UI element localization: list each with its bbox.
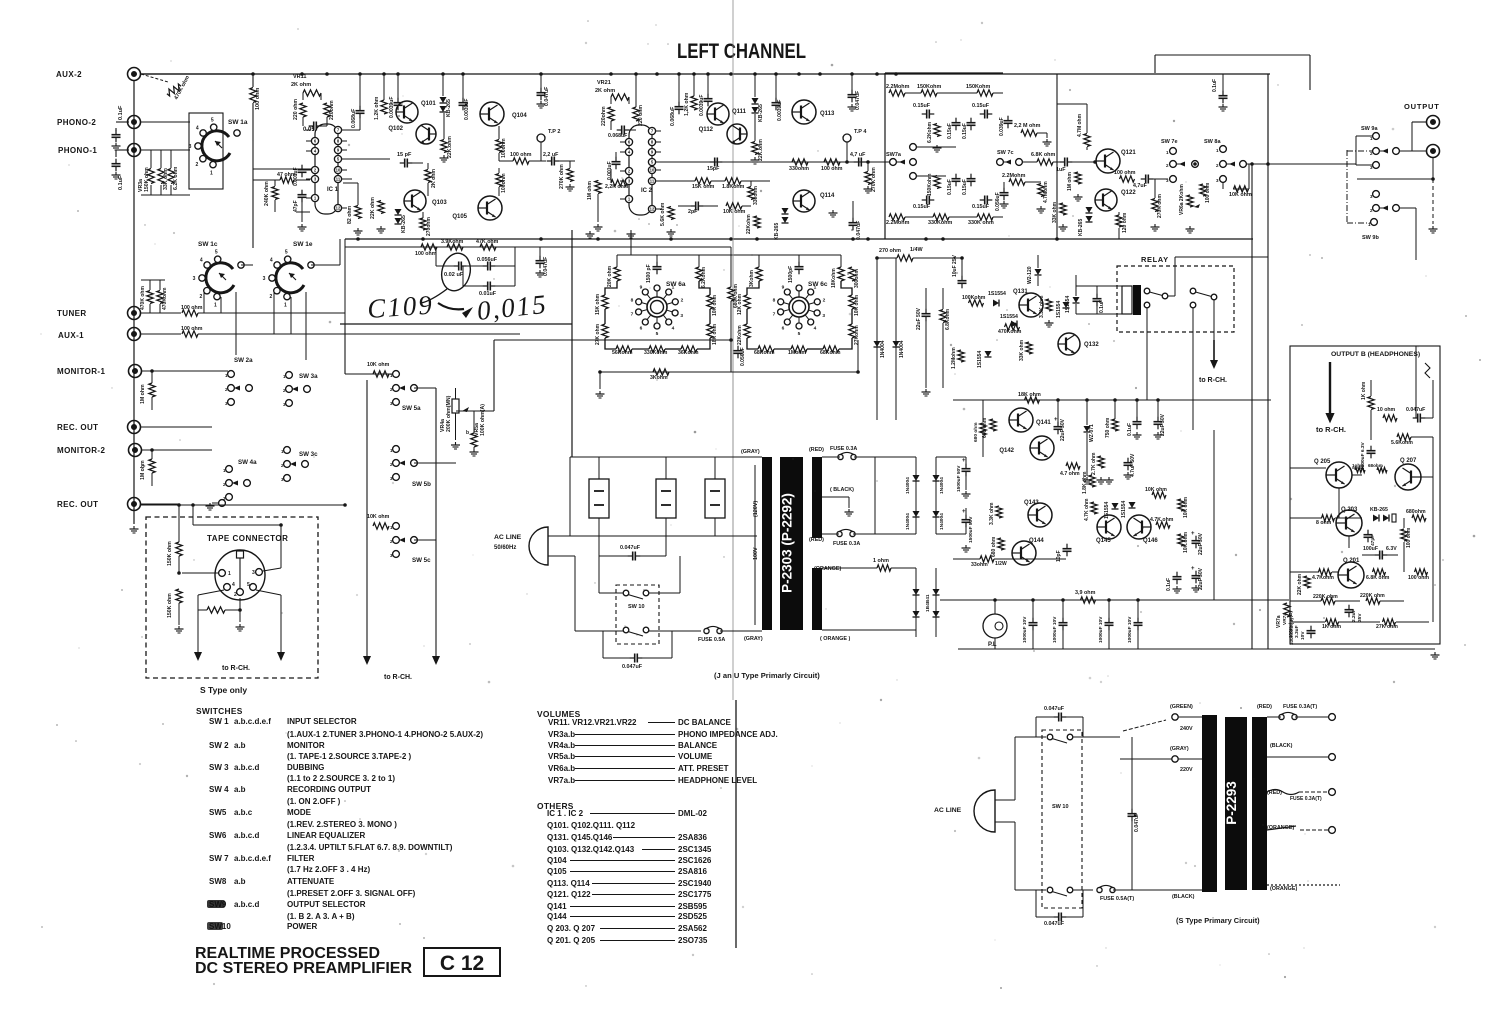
svg-text:2SD525: 2SD525 bbox=[678, 912, 707, 921]
svg-text:6: 6 bbox=[782, 325, 785, 331]
svg-text:2.2Mohm: 2.2Mohm bbox=[886, 220, 910, 226]
svg-text:MODE: MODE bbox=[287, 808, 312, 817]
svg-text:220K ohm: 220K ohm bbox=[1313, 594, 1338, 600]
ground hp right bbox=[1434, 652, 1436, 655]
svg-text:a.b.c.d: a.b.c.d bbox=[234, 763, 259, 772]
scan speckles bbox=[960, 39, 961, 40]
svg-text:Q132: Q132 bbox=[1084, 342, 1099, 348]
svg-text:100 ohm: 100 ohm bbox=[1205, 182, 1211, 203]
resistor 270K ohm sw7e bbox=[1152, 199, 1158, 212]
capacitor 1000uF 6.3V hp bbox=[1370, 446, 1372, 451]
long wire x631 down bbox=[630, 230, 632, 255]
bus wire lower mid bbox=[345, 238, 1253, 240]
svg-text:KB-265: KB-265 bbox=[1370, 507, 1388, 513]
capacitor 0.15uF vert2 bbox=[970, 118, 972, 123]
wires top right bbox=[1056, 74, 1058, 239]
svg-text:0.0039uF: 0.0039uF bbox=[699, 95, 705, 116]
svg-text:1B4B41: 1B4B41 bbox=[925, 594, 931, 612]
wire sw9b to headphone box bbox=[1399, 207, 1416, 209]
diode 1S1554 relay bbox=[1073, 297, 1080, 303]
capacitor 0.0039uF b bbox=[462, 98, 464, 103]
svg-text:1500uF 50V: 1500uF 50V bbox=[956, 465, 962, 492]
svg-text:27K ohm: 27K ohm bbox=[595, 323, 601, 345]
wires ic1 pins bbox=[306, 129, 311, 131]
svg-text:(120V): (120V) bbox=[753, 501, 759, 517]
svg-text:100V: 100V bbox=[753, 547, 759, 560]
svg-text:a.b: a.b bbox=[234, 785, 246, 794]
svg-text:Q111: Q111 bbox=[732, 109, 747, 115]
resistor 4.7Mohm vert bbox=[1038, 184, 1044, 197]
svg-text:10K ohm: 10K ohm bbox=[367, 362, 390, 368]
capacitor 1000uF 10V b bbox=[1062, 618, 1064, 623]
diode bridge 1N4004 2 bbox=[935, 457, 937, 520]
svg-text:4.7uF 50V: 4.7uF 50V bbox=[1130, 453, 1136, 477]
svg-text:2: 2 bbox=[196, 162, 199, 168]
svg-text:TUNER: TUNER bbox=[57, 309, 87, 318]
svg-text:1000uF 10V: 1000uF 10V bbox=[1127, 616, 1133, 643]
svg-text:VR11. VR12.VR21.VR22: VR11. VR12.VR21.VR22 bbox=[548, 718, 637, 727]
svg-text:3.9Kohm: 3.9Kohm bbox=[441, 239, 464, 245]
svg-text:0.1uF: 0.1uF bbox=[1212, 79, 1218, 92]
svg-text:2pF: 2pF bbox=[688, 209, 698, 215]
svg-text:KB-265: KB-265 bbox=[774, 223, 780, 240]
svg-text:Q121. Q122: Q121. Q122 bbox=[547, 890, 591, 899]
svg-text:1K ohm: 1K ohm bbox=[1361, 381, 1367, 400]
svg-text:12K ohm: 12K ohm bbox=[737, 293, 743, 315]
svg-text:22uF 50V: 22uF 50V bbox=[1198, 532, 1204, 555]
svg-text:750 ohm: 750 ohm bbox=[1105, 417, 1111, 438]
svg-text:0.15uF: 0.15uF bbox=[913, 103, 931, 109]
svg-text:PHONO-1: PHONO-1 bbox=[58, 146, 97, 155]
svg-text:FUSE 0.3A(T): FUSE 0.3A(T) bbox=[1290, 796, 1322, 802]
svg-text:0.15uF: 0.15uF bbox=[972, 103, 990, 109]
relay coil bbox=[1122, 286, 1132, 314]
svg-text:0.047uF: 0.047uF bbox=[1044, 921, 1065, 927]
svg-text:Q 207: Q 207 bbox=[1400, 458, 1417, 464]
ground VR4a bbox=[455, 426, 457, 440]
resistor 100ohm vertical q105 bbox=[496, 174, 502, 187]
svg-text:6.8K ohm: 6.8K ohm bbox=[1366, 575, 1390, 581]
svg-text:SW 6a: SW 6a bbox=[666, 281, 686, 288]
svg-text:22uF 50V: 22uF 50V bbox=[1060, 418, 1066, 441]
transformer P-2293 primary bar bbox=[1202, 715, 1217, 892]
capacitor 1500uF 50V b bbox=[965, 515, 967, 520]
svg-text:0.047uF: 0.047uF bbox=[856, 221, 862, 240]
capacitor 0.056uF bbox=[1003, 188, 1005, 193]
svg-text:( BLACK): ( BLACK) bbox=[830, 487, 854, 493]
diode bridge 1N4004 1 bbox=[915, 457, 917, 520]
svg-text:2: 2 bbox=[200, 294, 203, 300]
svg-text:22uF 50V: 22uF 50V bbox=[1160, 413, 1166, 436]
svg-text:3Kohm: 3Kohm bbox=[749, 270, 755, 288]
diode 1S1554 b bbox=[1011, 321, 1017, 328]
SW10 contact upper bbox=[623, 590, 629, 596]
svg-text:4,7uF: 4,7uF bbox=[1133, 183, 1148, 189]
resistor 270K ohm tp2 bbox=[567, 169, 573, 182]
capacitor 0.047uF mid bbox=[539, 256, 541, 261]
relay wires bbox=[1174, 257, 1176, 296]
svg-text:120 ohm: 120 ohm bbox=[1122, 212, 1128, 233]
svg-text:1000uF 10V: 1000uF 10V bbox=[1052, 616, 1058, 643]
svg-text:10pF: 10pF bbox=[1056, 550, 1062, 562]
resistor 300ohm sw6c right bbox=[849, 267, 855, 281]
svg-text:HEADPHONE LEVEL: HEADPHONE LEVEL bbox=[678, 776, 757, 785]
svg-text:220ohm: 220ohm bbox=[601, 106, 607, 126]
transistor Q102 bbox=[416, 124, 436, 144]
resistor 100 ohm tuner bbox=[141, 312, 181, 314]
svg-text:Q 201. Q 205: Q 201. Q 205 bbox=[547, 936, 596, 945]
SW10b contact lower bbox=[1047, 887, 1053, 893]
resistor 680K ohm divider bbox=[728, 287, 734, 301]
svg-text:INPUT SELECTOR: INPUT SELECTOR bbox=[287, 717, 357, 726]
ellipse annotation around 0.02uF bbox=[438, 250, 474, 294]
svg-text:150K ohm: 150K ohm bbox=[167, 541, 173, 566]
svg-text:2.2Mohm: 2.2Mohm bbox=[886, 84, 910, 90]
svg-text:SW6: SW6 bbox=[209, 831, 227, 840]
arrow to R-CH tape right bbox=[277, 652, 285, 661]
line filter can 3 bbox=[705, 479, 725, 518]
svg-text:6.8Kohm: 6.8Kohm bbox=[945, 308, 951, 330]
svg-text:10K ohm: 10K ohm bbox=[712, 294, 718, 316]
svg-text:Q145: Q145 bbox=[1096, 538, 1111, 544]
svg-text:VR6a 2Kohm: VR6a 2Kohm bbox=[1179, 184, 1185, 215]
svg-text:1M ohm: 1M ohm bbox=[140, 384, 146, 404]
svg-text:(1. B 2. A: (1. B 2. A 3. A + B) bbox=[287, 912, 355, 921]
svg-text:FUSE 0.3A(T): FUSE 0.3A(T) bbox=[1283, 704, 1317, 710]
relay contact a bbox=[1144, 288, 1150, 294]
wire monitor-1 to sw2a bbox=[141, 370, 228, 372]
svg-text:SW 7e: SW 7e bbox=[1161, 139, 1178, 145]
svg-text:AC LINE: AC LINE bbox=[934, 807, 962, 814]
transformer P-2303 secondary bar upper bbox=[812, 457, 822, 538]
capacitor 1000uF 10V a bbox=[1032, 618, 1034, 623]
wire pin3 top bbox=[192, 505, 194, 525]
svg-text:T.P 4: T.P 4 bbox=[854, 129, 867, 135]
wire jackB bbox=[1399, 150, 1426, 152]
wires sw6a wings bbox=[605, 281, 617, 295]
svg-text:10K ohm: 10K ohm bbox=[1183, 496, 1189, 518]
op-amp IC 1 bbox=[315, 124, 338, 214]
svg-text:SW 1a: SW 1a bbox=[228, 119, 248, 126]
svg-text:+: + bbox=[1191, 566, 1195, 572]
transistor Q143 bbox=[1028, 503, 1052, 527]
transistor Q146 bbox=[1127, 515, 1151, 539]
svg-text:10K ohm: 10K ohm bbox=[723, 209, 746, 215]
svg-text:3: 3 bbox=[822, 313, 825, 319]
tape connector dashed box bbox=[146, 517, 318, 678]
svg-text:5: 5 bbox=[798, 331, 801, 337]
ground output bbox=[1432, 179, 1434, 224]
svg-text:220 ohm: 220 ohm bbox=[293, 99, 299, 120]
svg-text:1S1554: 1S1554 bbox=[1065, 296, 1071, 313]
svg-text:1S1554: 1S1554 bbox=[1056, 301, 1062, 318]
svg-text:3: 3 bbox=[263, 276, 266, 282]
svg-text:(1.REV. 2.STEREO 3. MO: (1.REV. 2.STEREO 3. MONO ) bbox=[287, 820, 397, 829]
transistor Q111 bbox=[707, 103, 729, 125]
svg-text:0.15uF: 0.15uF bbox=[947, 123, 953, 139]
potentiometer VR5a 100K ohm(A) bbox=[471, 433, 477, 447]
capacitor 0.068uF vert ic2 bbox=[678, 102, 680, 107]
svg-text:DC BALANCE: DC BALANCE bbox=[678, 718, 732, 727]
svg-text:10K ohm: 10K ohm bbox=[1145, 487, 1167, 493]
resistor 27Kohm sw6c right bbox=[849, 324, 855, 338]
svg-text:SW 5a: SW 5a bbox=[402, 405, 421, 412]
wires sw10b bbox=[1073, 736, 1120, 738]
capacitor 22uF 50V q146 bbox=[1195, 536, 1197, 541]
svg-text:10V: 10V bbox=[1300, 631, 1306, 640]
svg-text:0.15uF: 0.15uF bbox=[962, 179, 968, 195]
svg-text:Q 201: Q 201 bbox=[1343, 558, 1360, 564]
svg-text:Q131. Q145.Q146: Q131. Q145.Q146 bbox=[547, 833, 613, 842]
wire q121 top bbox=[1057, 103, 1087, 105]
transformer P-2293 secondary bar bbox=[1252, 717, 1267, 890]
wires sw6c wings bbox=[747, 281, 759, 295]
arrow to R-CH mid bbox=[1213, 340, 1215, 360]
capacitor 1500uF 50V a bbox=[965, 464, 967, 469]
capacitor 0.068uF bbox=[359, 106, 361, 111]
svg-text:Q144: Q144 bbox=[547, 912, 567, 921]
svg-text:220 ohm: 220 ohm bbox=[638, 105, 644, 126]
svg-text:1Mohm: 1Mohm bbox=[788, 350, 807, 356]
resistor 1.8K ohm supply bbox=[1089, 475, 1095, 487]
svg-text:Q103: Q103 bbox=[432, 200, 447, 206]
resistor 22K ohm hp bbox=[1304, 576, 1310, 588]
resistor 100 ohm to SW1c bbox=[252, 74, 254, 87]
resistor 1M ohm monitor-2 bbox=[149, 459, 155, 473]
svg-text:1N4004: 1N4004 bbox=[939, 477, 945, 494]
OUTPUT B box bbox=[1290, 346, 1440, 644]
svg-text:P-2303 (P-2292): P-2303 (P-2292) bbox=[780, 493, 795, 593]
svg-text:1M ohm: 1M ohm bbox=[1067, 172, 1073, 191]
svg-text:S Type only: S Type only bbox=[200, 685, 247, 695]
svg-text:4,7 uF: 4,7 uF bbox=[850, 152, 866, 158]
transistor Q207 bbox=[1395, 464, 1421, 490]
svg-text:Q113: Q113 bbox=[820, 111, 835, 117]
svg-text:2: 2 bbox=[270, 294, 273, 300]
rotary switch SW 1a bbox=[202, 131, 230, 161]
transistor Q142 bbox=[1030, 436, 1054, 460]
svg-text:+: + bbox=[1191, 531, 1195, 537]
svg-text:1M ohm: 1M ohm bbox=[140, 460, 146, 480]
svg-text:(1.1 to 2 2.SOURCE 3.: (1.1 to 2 2.SOURCE 3. 2 to 1) bbox=[287, 774, 395, 783]
svg-text:50/60Hz: 50/60Hz bbox=[494, 545, 516, 551]
svg-text:2SA816: 2SA816 bbox=[678, 867, 707, 876]
diode 1S1554 c bbox=[1063, 302, 1070, 308]
resistor 15K ohm sw6 bbox=[602, 295, 608, 309]
capacitor 0.047uF q114 bbox=[852, 218, 854, 223]
svg-text:6: 6 bbox=[640, 325, 643, 331]
svg-text:SW 4a: SW 4a bbox=[238, 459, 257, 466]
transistor Q114 bbox=[793, 190, 815, 212]
svg-text:0.068uF: 0.068uF bbox=[351, 109, 357, 128]
ground q142 bbox=[1108, 477, 1110, 480]
transistor Q104 bbox=[480, 102, 504, 126]
filter network box bbox=[884, 73, 886, 239]
resistor 6.2Kohm sw6 right bbox=[696, 267, 702, 281]
svg-text:0.047uF: 0.047uF bbox=[622, 664, 643, 670]
svg-text:10K ohm: 10K ohm bbox=[854, 294, 860, 316]
svg-text:LINEAR EQUALIZER: LINEAR EQUALIZER bbox=[287, 831, 365, 840]
svg-text:240K ohm: 240K ohm bbox=[264, 181, 270, 206]
svg-text:0.068uF: 0.068uF bbox=[670, 107, 676, 126]
connector pin 5 bbox=[250, 584, 257, 591]
svg-text:a.b: a.b bbox=[234, 741, 246, 750]
page fold crease bbox=[732, 0, 734, 700]
svg-text:100ohm: 100ohm bbox=[501, 173, 507, 193]
svg-text:SW 2a: SW 2a bbox=[234, 357, 253, 364]
transistor Q205 bbox=[1326, 462, 1352, 488]
svg-text:SW 7: SW 7 bbox=[209, 854, 229, 863]
resistor 33K ohm bbox=[158, 169, 164, 184]
svg-text:10K ohm: 10K ohm bbox=[367, 514, 390, 520]
svg-text:( ORANGE ): ( ORANGE ) bbox=[820, 636, 850, 642]
svg-text:100 ohm: 100 ohm bbox=[415, 251, 437, 257]
transistor Q112 bbox=[727, 124, 747, 144]
capacitor 0.1uF phono-2 bbox=[115, 130, 117, 135]
wire y247 resistor row bbox=[345, 246, 731, 248]
wires sw10 mid bbox=[574, 556, 576, 631]
signal wire ic2 out bbox=[656, 161, 893, 163]
svg-text:330ohm: 330ohm bbox=[753, 186, 759, 205]
svg-text:33K ohm: 33K ohm bbox=[163, 168, 169, 190]
arrow to R-CH tape left bbox=[194, 652, 202, 661]
transformer P-2293 core bar bbox=[1225, 717, 1247, 890]
svg-text:0.068uF: 0.068uF bbox=[608, 133, 627, 139]
svg-text:VR4a.b: VR4a.b bbox=[548, 741, 575, 750]
wire sw9 mid bbox=[1357, 178, 1433, 180]
capacitor 0.056uF divider bbox=[737, 346, 739, 351]
svg-text:OUTPUT SELECTOR: OUTPUT SELECTOR bbox=[287, 900, 366, 909]
relay feed wires bbox=[1076, 285, 1122, 287]
svg-text:(1.AUX-1 2.TUNER 3.PHONO-: (1.AUX-1 2.TUNER 3.PHONO-1 4.PHONO-2 5.A… bbox=[287, 730, 483, 739]
svg-text:10K.ohm: 10K.ohm bbox=[1183, 531, 1189, 553]
wire supply to headphone bbox=[1213, 430, 1215, 600]
svg-text:(ORANGE): (ORANGE) bbox=[1270, 886, 1297, 892]
wire phono-2 right bbox=[141, 121, 190, 123]
capacitor 0.047uF tp2 bbox=[540, 88, 542, 93]
svg-text:1500uF 50V: 1500uF 50V bbox=[968, 516, 974, 543]
svg-text:1K ohm: 1K ohm bbox=[1322, 624, 1341, 630]
svg-text:ATTENUATE: ATTENUATE bbox=[287, 877, 335, 886]
transistor Q131 bbox=[1019, 293, 1043, 317]
test point T.P 4 bbox=[843, 134, 851, 142]
resistor 680ohm supply bbox=[980, 423, 986, 435]
svg-text:T.P 2: T.P 2 bbox=[548, 129, 560, 135]
wire sw6 to supply bbox=[857, 340, 859, 372]
svg-text:68ohm: 68ohm bbox=[1368, 463, 1383, 468]
svg-text:8: 8 bbox=[773, 298, 776, 304]
svg-text:22K.ohm: 22K.ohm bbox=[447, 136, 453, 158]
svg-text:FUSE 0.3A: FUSE 0.3A bbox=[830, 446, 857, 452]
long wire right side down bbox=[1251, 164, 1253, 257]
svg-text:4: 4 bbox=[196, 126, 199, 132]
capacitor 0.068uF with note 0.05 bbox=[309, 125, 314, 127]
svg-text:3.3K ohm: 3.3K ohm bbox=[989, 502, 995, 525]
wire block bottom edge bbox=[340, 323, 572, 325]
svg-text:WZ-071: WZ-071 bbox=[1089, 424, 1095, 442]
wire feedback ic1 bbox=[253, 168, 311, 170]
capacitor 10uF 25V bbox=[961, 276, 963, 281]
svg-text:1/4W: 1/4W bbox=[910, 247, 923, 253]
svg-text:4.7K ohm: 4.7K ohm bbox=[1084, 498, 1090, 521]
svg-text:4: 4 bbox=[814, 325, 817, 331]
diode 1N4004 a bbox=[876, 258, 878, 420]
svg-text:1S1554: 1S1554 bbox=[988, 291, 1006, 297]
svg-text:SW 3a: SW 3a bbox=[299, 373, 318, 380]
svg-text:SW 3c: SW 3c bbox=[299, 451, 318, 458]
svg-text:6.3V: 6.3V bbox=[1386, 546, 1397, 552]
diodes KB-265 bbox=[440, 97, 447, 103]
svg-text:680 ohm: 680 ohm bbox=[982, 417, 988, 438]
svg-text:KB-265: KB-265 bbox=[446, 99, 452, 117]
svg-text:4.7Kohm: 4.7Kohm bbox=[1312, 575, 1334, 581]
svg-text:a.b.c.d.e.f: a.b.c.d.e.f bbox=[234, 717, 271, 726]
svg-text:100uF: 100uF bbox=[1363, 546, 1378, 552]
svg-text:Q122: Q122 bbox=[1121, 190, 1136, 196]
wire to arrow left bbox=[197, 610, 199, 652]
capacitor 47pF bbox=[301, 190, 303, 195]
svg-text:1.8K ohm: 1.8K ohm bbox=[1082, 471, 1088, 494]
capacitor 47pF hp bbox=[1367, 530, 1369, 535]
big arrow to R-CH headphones bbox=[1329, 362, 1331, 413]
svg-text:4.7M ohm: 4.7M ohm bbox=[1077, 113, 1083, 137]
svg-text:AUX-1: AUX-1 bbox=[58, 331, 84, 340]
svg-text:IC 1: IC 1 bbox=[327, 187, 339, 193]
resistor 3.3K ohm q143 bbox=[996, 506, 1002, 518]
svg-text:1: 1 bbox=[284, 302, 287, 308]
svg-text:4: 4 bbox=[270, 258, 273, 264]
resistor horizontal tape bbox=[207, 607, 225, 613]
transistor Q203 bbox=[1336, 510, 1362, 536]
svg-text:1N4004: 1N4004 bbox=[880, 340, 886, 358]
resistor 220 ohm ic2 b bbox=[633, 107, 639, 121]
svg-text:150K ohm: 150K ohm bbox=[167, 593, 173, 618]
svg-text:KB-265: KB-265 bbox=[401, 215, 407, 233]
svg-text:P.L: P.L bbox=[988, 642, 997, 648]
transformer P-2303 primary bar bbox=[762, 457, 772, 630]
svg-text:0.047uF: 0.047uF bbox=[1044, 706, 1065, 712]
svg-text:(GREEN): (GREEN) bbox=[1170, 704, 1193, 710]
wire spine to AC line box bbox=[571, 324, 573, 457]
output jack A bbox=[1427, 116, 1440, 129]
svg-text:IC 2: IC 2 bbox=[641, 188, 653, 194]
capacitor 0.15uF vert1 bbox=[955, 118, 957, 123]
resistor 1M ohm monitor-1 bbox=[149, 383, 155, 397]
svg-text:5: 5 bbox=[247, 582, 250, 588]
svg-text:8: 8 bbox=[631, 298, 634, 304]
resistor 20K ohm sw6 left bbox=[614, 267, 620, 281]
svg-text:DML-02: DML-02 bbox=[678, 809, 707, 818]
zener W2-120 bbox=[1035, 269, 1042, 275]
svg-text:6.2Kohm: 6.2Kohm bbox=[927, 121, 933, 143]
diodes KB-265 q122 bbox=[1086, 207, 1093, 213]
svg-text:3: 3 bbox=[252, 570, 255, 576]
relay contact b bbox=[1190, 288, 1196, 294]
capacitor 0.001uF ic2 bbox=[615, 157, 617, 162]
svg-text:SW 6c: SW 6c bbox=[808, 281, 828, 288]
capacitor 0.0039uF ic2 bbox=[707, 94, 709, 99]
lamp P.L bbox=[983, 614, 1007, 638]
resistor 3Kohm sw6c left bbox=[756, 267, 762, 281]
svg-text:100 ohm: 100 ohm bbox=[1406, 527, 1412, 548]
svg-text:22K.ohm: 22K.ohm bbox=[758, 139, 764, 161]
svg-text:a.b.c.d: a.b.c.d bbox=[234, 900, 259, 909]
svg-text:100ohm: 100ohm bbox=[501, 138, 507, 158]
op-amp IC 2 bbox=[629, 125, 652, 215]
svg-text:3.3uF: 3.3uF bbox=[1294, 625, 1300, 638]
svg-text:0.0039uF: 0.0039uF bbox=[464, 99, 470, 120]
capacitor 2.2uF 35V hp bbox=[1348, 605, 1350, 610]
